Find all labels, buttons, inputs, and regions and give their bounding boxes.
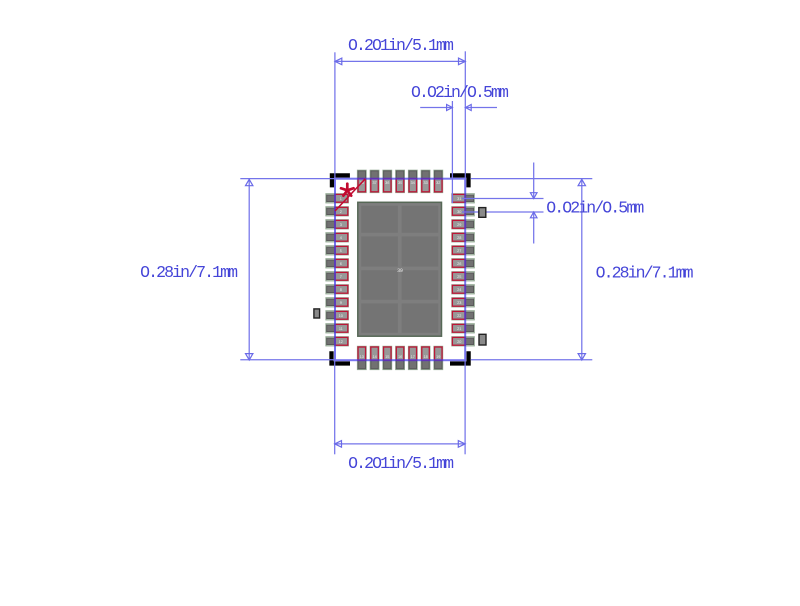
svg-text:4: 4 xyxy=(340,236,342,240)
svg-text:16: 16 xyxy=(398,355,402,359)
svg-text:8: 8 xyxy=(340,288,342,292)
svg-text:17: 17 xyxy=(411,355,415,359)
svg-text:O.2O1in/5.1mm: O.2O1in/5.1mm xyxy=(348,36,454,55)
svg-text:13: 13 xyxy=(360,355,364,359)
svg-text:O.O2in/O.5mm: O.O2in/O.5mm xyxy=(546,199,644,218)
svg-text:31: 31 xyxy=(457,197,461,201)
svg-text:37: 37 xyxy=(372,181,376,185)
svg-text:O.O2in/O.5mm: O.O2in/O.5mm xyxy=(411,83,509,102)
svg-text:11: 11 xyxy=(339,327,343,331)
svg-text:33: 33 xyxy=(423,181,427,185)
svg-text:2: 2 xyxy=(340,210,342,214)
svg-text:22: 22 xyxy=(457,314,461,318)
svg-text:1: 1 xyxy=(340,197,342,201)
svg-text:14: 14 xyxy=(372,355,376,359)
svg-text:6: 6 xyxy=(340,262,342,266)
svg-text:23: 23 xyxy=(457,301,461,305)
svg-text:O.28in/7.1mm: O.28in/7.1mm xyxy=(140,263,238,282)
svg-text:20: 20 xyxy=(457,340,461,344)
svg-text:27: 27 xyxy=(457,249,461,253)
svg-text:15: 15 xyxy=(385,355,389,359)
svg-text:19: 19 xyxy=(436,355,440,359)
svg-text:35: 35 xyxy=(398,181,402,185)
svg-text:34: 34 xyxy=(411,181,415,185)
svg-text:32: 32 xyxy=(436,181,440,185)
svg-text:36: 36 xyxy=(385,181,389,185)
svg-text:30: 30 xyxy=(457,210,461,214)
svg-text:O.28in/7.1mm: O.28in/7.1mm xyxy=(596,264,694,283)
svg-text:9: 9 xyxy=(340,301,342,305)
svg-text:10: 10 xyxy=(339,314,343,318)
svg-text:7: 7 xyxy=(340,275,342,279)
svg-text:29: 29 xyxy=(457,223,461,227)
svg-text:12: 12 xyxy=(339,340,343,344)
svg-text:28: 28 xyxy=(457,236,461,240)
svg-text:25: 25 xyxy=(457,275,461,279)
svg-text:26: 26 xyxy=(457,262,461,266)
svg-text:5: 5 xyxy=(340,249,342,253)
svg-text:39: 39 xyxy=(397,268,403,274)
svg-text:18: 18 xyxy=(423,355,427,359)
svg-text:O.2O1in/5.1mm: O.2O1in/5.1mm xyxy=(348,454,454,473)
svg-text:3: 3 xyxy=(340,223,342,227)
svg-text:21: 21 xyxy=(457,327,461,331)
svg-text:24: 24 xyxy=(457,288,461,292)
